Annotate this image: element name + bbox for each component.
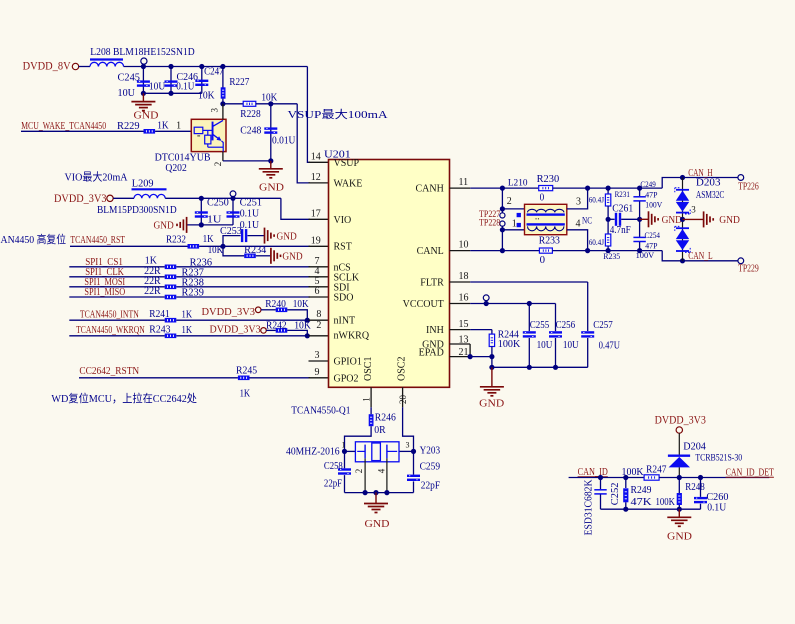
resistor R235 <box>607 219 609 234</box>
svg-text:GND: GND <box>259 181 284 193</box>
svg-text:2: 2 <box>507 196 512 207</box>
svg-text:CANH: CANH <box>415 183 443 194</box>
svg-text:C259: C259 <box>420 461 441 472</box>
svg-text:R240: R240 <box>265 299 286 310</box>
wire MCU WAKE <box>21 130 144 132</box>
ferrite bead L209 <box>132 188 167 190</box>
svg-text:INH: INH <box>426 325 444 336</box>
svg-text:1K: 1K <box>182 325 193 336</box>
capacitor C258 <box>344 451 346 468</box>
capacitor C256 <box>555 304 557 332</box>
svg-text:1: 1 <box>362 397 372 402</box>
svg-text:R230: R230 <box>537 174 560 185</box>
svg-text:DVDD_3V3: DVDD_3V3 <box>202 306 256 318</box>
svg-text:R228: R228 <box>240 109 260 120</box>
svg-text:Q202: Q202 <box>165 163 186 174</box>
svg-text:2: 2 <box>316 320 321 331</box>
wire OSC2 to crystal <box>403 407 414 451</box>
svg-text:R233: R233 <box>539 236 560 247</box>
test point TP229 <box>738 258 744 264</box>
svg-text:CANL: CANL <box>417 246 444 257</box>
wire CAN_ID <box>569 477 645 479</box>
svg-text:MCU_WAKE_TCAN4450: MCU_WAKE_TCAN4450 <box>21 121 106 132</box>
svg-text:10U: 10U <box>563 340 579 351</box>
ground <box>270 161 272 169</box>
svg-text:L209: L209 <box>132 178 154 189</box>
resistor R249 <box>625 478 627 489</box>
svg-text:2: 2 <box>213 162 223 167</box>
svg-text:1K: 1K <box>157 121 169 132</box>
svg-text:6: 6 <box>315 286 320 297</box>
capacitor C251 <box>232 198 234 225</box>
svg-text:VCCOUT: VCCOUT <box>403 299 444 310</box>
wire SPI1_CS1 <box>69 266 165 268</box>
svg-text:18: 18 <box>459 271 469 282</box>
svg-text:WD复位MCU，上拉在CC2642处: WD复位MCU，上拉在CC2642处 <box>51 391 197 405</box>
svg-text:DVDD_8V: DVDD_8V <box>23 60 72 72</box>
svg-text:FLTR: FLTR <box>420 277 444 288</box>
resistor R238 <box>165 285 177 290</box>
capacitor C261 <box>608 218 615 220</box>
svg-text:TP229: TP229 <box>738 264 759 275</box>
svg-text:40MHZ-2016: 40MHZ-2016 <box>286 447 340 458</box>
svg-text:60.4J: 60.4J <box>589 238 604 247</box>
svg-text:0.1U: 0.1U <box>707 503 727 514</box>
ground <box>264 228 266 244</box>
svg-text:22pF: 22pF <box>421 481 441 492</box>
svg-text:C249: C249 <box>640 179 655 189</box>
svg-text:4.7nF: 4.7nF <box>610 225 631 236</box>
svg-text:OSC2: OSC2 <box>396 357 407 381</box>
svg-text:3: 3 <box>315 350 320 361</box>
wire cap ground rail <box>492 366 588 368</box>
wire GND/EPAD join <box>469 344 471 357</box>
svg-text:1K: 1K <box>145 256 158 267</box>
svg-text:100K: 100K <box>498 339 521 350</box>
svg-text:R243: R243 <box>149 325 170 336</box>
wire nINT to pin 8 <box>176 319 310 321</box>
svg-text:GPIO1: GPIO1 <box>334 357 362 368</box>
ground <box>375 493 377 504</box>
resistor R243 <box>165 334 177 339</box>
wire RST <box>70 245 188 247</box>
capacitor C247 <box>201 67 203 94</box>
capacitor C255 <box>528 304 530 332</box>
svg-text:VIO: VIO <box>334 215 352 226</box>
svg-text:C261: C261 <box>612 203 633 214</box>
wire crystal pin 2 <box>364 458 366 492</box>
resistor R240 <box>276 308 288 313</box>
svg-text:GND: GND <box>719 214 740 226</box>
svg-text:1U: 1U <box>207 214 222 225</box>
svg-text:10K: 10K <box>294 320 311 331</box>
resistor R241 <box>165 318 177 323</box>
wire CAN_ID_DET <box>659 477 769 479</box>
svg-text:TCAN4550-Q1: TCAN4550-Q1 <box>291 405 350 416</box>
svg-text:0: 0 <box>540 192 545 203</box>
wire VSUP top rail <box>124 66 308 68</box>
svg-text:DVDD_3V3: DVDD_3V3 <box>54 193 107 205</box>
wire CANL down and right <box>662 251 738 261</box>
pin 21 EPAD wire <box>450 356 471 358</box>
svg-text:ESD31C682K: ESD31C682K <box>584 479 595 535</box>
resistor R234 <box>223 246 244 256</box>
wire SPI1_CLK <box>69 276 165 278</box>
svg-text:1K: 1K <box>182 310 193 321</box>
svg-text:3: 3 <box>406 441 410 450</box>
test point TP227 <box>500 213 505 218</box>
svg-text:100V: 100V <box>636 251 655 260</box>
wire CAN_ID ground rail <box>601 508 701 510</box>
IC U201 TCAN4550-Q1 <box>329 160 450 388</box>
svg-text:1: 1 <box>342 441 346 450</box>
svg-text:9: 9 <box>315 367 320 378</box>
svg-text:GND: GND <box>282 250 302 262</box>
probe pad marker <box>517 213 521 217</box>
resistor R232 <box>188 244 200 249</box>
svg-text:10K: 10K <box>208 245 224 256</box>
svg-text:CAN_L: CAN_L <box>688 251 713 262</box>
svg-text:D204: D204 <box>683 442 706 453</box>
svg-text:0: 0 <box>540 255 545 266</box>
no-ERC marker on VIO rail <box>230 191 236 197</box>
svg-text:TCAN4450 高复位: TCAN4450 高复位 <box>0 232 66 246</box>
no-ERC marker on VSUP rail <box>141 58 147 64</box>
svg-text:R229: R229 <box>117 121 140 132</box>
ground <box>640 218 649 220</box>
svg-text:2: 2 <box>354 469 364 474</box>
wire cap ground rail <box>143 92 201 94</box>
svg-text:1: 1 <box>176 121 181 132</box>
svg-text:R242: R242 <box>266 320 287 331</box>
svg-text:4: 4 <box>576 219 581 230</box>
wire crystal pin 4 <box>386 458 388 492</box>
svg-text:OSC1: OSC1 <box>363 357 374 381</box>
resistor R227 <box>222 67 224 88</box>
svg-text:13: 13 <box>459 335 469 346</box>
svg-text:19: 19 <box>311 235 321 246</box>
wire R228 row <box>223 103 243 105</box>
svg-text:100K: 100K <box>656 497 676 508</box>
svg-text:47P: 47P <box>645 242 658 251</box>
svg-text:100V: 100V <box>645 200 662 209</box>
ground <box>186 217 188 233</box>
svg-text:10K: 10K <box>198 91 215 102</box>
svg-text:L208 BLM18HE152SN1D: L208 BLM18HE152SN1D <box>90 47 194 58</box>
wire R240 to nINT <box>287 310 307 320</box>
wire Q202 collector <box>222 104 224 120</box>
svg-text:GND: GND <box>365 518 390 530</box>
svg-text:3: 3 <box>691 205 696 215</box>
svg-text:TCAN4450_RST: TCAN4450_RST <box>70 235 125 246</box>
wire SPI1_MISO <box>69 296 165 298</box>
pin 16 VCCOUT wire <box>450 303 471 305</box>
svg-text:C256: C256 <box>556 320 576 331</box>
svg-text:14: 14 <box>311 152 321 163</box>
svg-text:C258: C258 <box>324 461 343 472</box>
svg-text:0.1U: 0.1U <box>240 220 260 231</box>
svg-text:GND: GND <box>154 220 174 232</box>
svg-text:3: 3 <box>210 108 220 113</box>
capacitor C259 <box>413 451 415 474</box>
svg-text:0.47U: 0.47U <box>599 341 621 352</box>
svg-text:0R: 0R <box>374 425 386 436</box>
svg-text:GND: GND <box>134 109 159 121</box>
capacitor C254 <box>639 219 641 237</box>
svg-text:12: 12 <box>311 172 321 183</box>
svg-text:1K: 1K <box>240 389 251 400</box>
resistor R242 <box>276 328 288 333</box>
svg-text:TP228: TP228 <box>479 218 501 228</box>
svg-text:TCAN4450_INTN: TCAN4450_INTN <box>80 310 139 321</box>
capacitor C260 <box>700 478 702 497</box>
svg-text:Y203: Y203 <box>420 445 441 456</box>
svg-text:R232: R232 <box>166 235 186 246</box>
pin 13 GND wire <box>450 343 471 345</box>
wire VSUP down to pin 14 <box>307 67 310 163</box>
svg-text:R245: R245 <box>236 365 257 376</box>
svg-text:R235: R235 <box>603 251 620 261</box>
svg-text:8: 8 <box>316 309 321 320</box>
wire choke left branch CANL <box>501 226 503 250</box>
svg-text:GPO2: GPO2 <box>334 373 359 384</box>
wire choke left branch CANH <box>501 188 503 213</box>
svg-text:4: 4 <box>377 468 387 473</box>
wire CANL to filter <box>552 250 662 252</box>
transistor Q202 DTC014YUB <box>191 119 226 151</box>
diode D204 TCRB521S-30 <box>668 455 690 457</box>
capacitor C245 <box>142 67 144 94</box>
svg-text:C245: C245 <box>118 72 141 83</box>
wire VIO cap ground rail <box>187 224 233 226</box>
svg-text:TCAN4450_WKRQN: TCAN4450_WKRQN <box>76 325 145 336</box>
wire OSC1 to crystal <box>345 426 372 451</box>
no-ERC marker on VCCOUT <box>483 295 489 301</box>
resistor R237 <box>165 275 177 280</box>
wire WAKE down to pin 12 <box>297 104 310 183</box>
resistor R246 <box>369 414 374 426</box>
capacitor C257 <box>581 331 594 333</box>
pin 15 INH wire <box>450 329 471 331</box>
svg-text:10U: 10U <box>537 340 554 351</box>
capacitor C249 <box>639 188 641 196</box>
svg-text:BLM15PD300SN1D: BLM15PD300SN1D <box>97 205 177 216</box>
wire nINT <box>69 319 165 321</box>
wire SPI1_MOSI <box>69 286 165 288</box>
svg-text:SDO: SDO <box>334 293 354 304</box>
capacitor C248 <box>270 104 272 161</box>
svg-text:nWKRQ: nWKRQ <box>334 331 370 342</box>
wire RST to pin 19 <box>199 245 310 247</box>
svg-text:C248: C248 <box>240 126 261 137</box>
wire nWKRQ to pin 2 <box>176 335 310 337</box>
svg-text:R247: R247 <box>646 464 666 475</box>
svg-text:R234: R234 <box>244 245 266 256</box>
wire to Q202 base <box>155 130 191 132</box>
wire VIO to pin 17 <box>281 198 310 219</box>
svg-text:nINT: nINT <box>334 316 356 327</box>
svg-text:GND: GND <box>277 230 297 242</box>
ground <box>683 218 704 220</box>
svg-text:47P: 47P <box>645 191 658 200</box>
ground <box>270 248 272 264</box>
svg-text:DVDD_3V3: DVDD_3V3 <box>655 414 707 426</box>
wire to pin 9 <box>249 377 310 379</box>
svg-text:22pF: 22pF <box>324 478 343 489</box>
svg-text:1: 1 <box>512 219 517 230</box>
wire Q202 emitter to ground <box>222 152 224 161</box>
svg-text:11: 11 <box>459 177 469 188</box>
svg-text:DTC014YUB: DTC014YUB <box>155 152 211 163</box>
resistor R248 <box>678 478 680 494</box>
svg-text:15: 15 <box>459 319 469 330</box>
wire VIO rail <box>165 197 281 199</box>
svg-text:R231: R231 <box>615 189 630 199</box>
capacitor C252 ESD31C682K <box>600 478 602 490</box>
wire OSC1 <box>370 387 372 407</box>
svg-text:DVDD_3V3: DVDD_3V3 <box>210 324 262 336</box>
svg-text:CC2642_RSTN: CC2642_RSTN <box>79 366 139 377</box>
svg-text:EPAD: EPAD <box>419 348 444 359</box>
wire SPI1_CS1 to pin <box>176 266 310 268</box>
svg-text:17: 17 <box>311 209 321 220</box>
wire CC2642_RSTN <box>79 377 238 379</box>
svg-text:C251: C251 <box>240 198 262 209</box>
wire SPI1_MISO to pin <box>176 296 310 298</box>
svg-text:TP226: TP226 <box>738 181 759 192</box>
svg-text:22R: 22R <box>144 286 161 297</box>
resistor R233 <box>539 248 552 253</box>
svg-text:R249: R249 <box>631 485 652 496</box>
svg-text:R227: R227 <box>229 77 249 88</box>
pin 18 FLTR wire <box>450 281 471 283</box>
svg-text:C250: C250 <box>207 198 229 209</box>
svg-text:VSUP最大100mA: VSUP最大100mA <box>288 107 388 121</box>
resistor R236 <box>165 265 177 270</box>
svg-text:RST: RST <box>334 242 352 253</box>
pin 3 stub <box>309 360 329 362</box>
svg-text:10U: 10U <box>149 81 166 92</box>
svg-text:VSUP: VSUP <box>334 158 360 169</box>
svg-text:C252: C252 <box>610 483 621 506</box>
resistor R239 <box>165 295 177 300</box>
test point TP226 <box>738 175 744 181</box>
pin 11 CANH wire <box>450 187 471 189</box>
wire crystal ground rail <box>345 492 414 494</box>
wire to WAKE branch <box>256 103 297 105</box>
svg-text:C253: C253 <box>220 226 242 237</box>
wire CANH to filter <box>553 187 663 189</box>
svg-text:0.1U: 0.1U <box>240 209 260 220</box>
svg-text:R241: R241 <box>149 309 169 320</box>
ground <box>678 509 680 517</box>
wire choke pin 4 <box>567 230 588 251</box>
svg-text:3: 3 <box>576 197 581 208</box>
wire SPI1_CLK to pin <box>176 276 310 278</box>
wire FLTR down <box>587 282 589 331</box>
svg-text:L210: L210 <box>508 178 528 188</box>
svg-text:NC: NC <box>582 216 592 226</box>
ferrite bead L208 <box>90 58 123 60</box>
wire SPI1_MOSI to pin <box>176 286 310 288</box>
svg-text:10K: 10K <box>293 299 310 310</box>
svg-text:GND: GND <box>662 214 682 226</box>
wire OSC2 <box>402 387 404 407</box>
svg-text:TCRB521S-30: TCRB521S-30 <box>695 453 742 463</box>
resistor R229 <box>144 129 156 134</box>
svg-text:60.4J: 60.4J <box>589 195 604 204</box>
svg-text:47K: 47K <box>631 497 653 508</box>
svg-text:10: 10 <box>459 240 469 251</box>
svg-text:R246: R246 <box>375 412 396 423</box>
TVS diode D203 ASM32C <box>682 178 684 220</box>
ground <box>491 367 493 387</box>
svg-text:0.1U: 0.1U <box>176 81 195 92</box>
svg-text:21: 21 <box>459 347 469 358</box>
capacitor C246 <box>170 67 172 94</box>
svg-text:D203: D203 <box>696 178 721 189</box>
svg-text:C257: C257 <box>593 320 613 331</box>
svg-text:100K: 100K <box>622 467 645 478</box>
resistor R247 <box>644 475 659 480</box>
svg-text:R248: R248 <box>685 482 705 493</box>
svg-text:0.01U: 0.01U <box>272 135 296 146</box>
svg-text:1K: 1K <box>203 234 215 245</box>
svg-text:20: 20 <box>398 395 408 405</box>
svg-text:VIO最大20mA: VIO最大20mA <box>65 170 128 184</box>
resistor R230 <box>539 186 553 191</box>
resistor R228 <box>243 101 256 106</box>
svg-text:GND: GND <box>667 530 692 542</box>
wire R242 to nWKRQ <box>287 330 307 335</box>
svg-text:C254: C254 <box>645 230 661 240</box>
svg-text:ASM32C: ASM32C <box>696 190 725 201</box>
wire CANH up and right <box>662 178 738 189</box>
svg-text:C247: C247 <box>204 67 224 78</box>
svg-text:C255: C255 <box>530 320 550 331</box>
resistor R244 <box>491 330 493 335</box>
svg-text:GND: GND <box>479 398 504 410</box>
wire nWKRQ <box>69 335 165 337</box>
svg-text:16: 16 <box>459 293 469 304</box>
resistor R245 <box>238 376 250 381</box>
svg-text:10U: 10U <box>118 88 136 99</box>
capacitor C250 <box>200 198 202 225</box>
pin 10 CANL wire <box>450 250 471 252</box>
svg-text:WAKE: WAKE <box>334 178 363 189</box>
ground <box>142 93 144 101</box>
capacitor C253 <box>223 236 241 247</box>
test point TP228 <box>500 221 505 226</box>
crystal Y203 40MHZ-2016 <box>345 450 356 452</box>
resistor R231 <box>607 188 609 194</box>
svg-text:C260: C260 <box>706 492 728 503</box>
wire choke pin 3 <box>567 188 588 209</box>
probe pad marker <box>517 223 521 227</box>
